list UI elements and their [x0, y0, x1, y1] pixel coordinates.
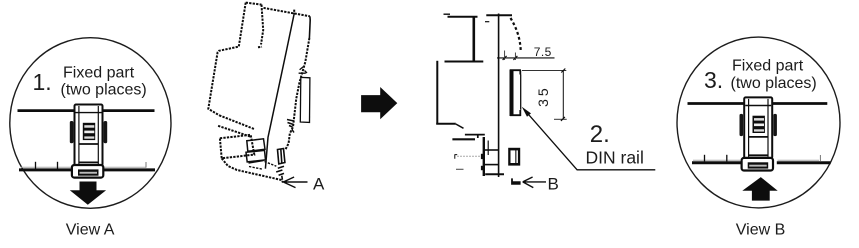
DIN rail leader line	[528, 113, 656, 170]
right bottom rail thin upper line	[693, 159, 819, 161]
3D right edge dashed	[286, 38, 310, 149]
left bottom rail line	[19, 168, 155, 171]
down arrow (View A)	[70, 182, 106, 205]
3D bottom edge	[222, 158, 283, 182]
3D diagonal edge 1	[219, 115, 255, 129]
3D bottom tip cluster	[276, 166, 284, 180]
side bottom shelf	[436, 123, 456, 125]
arrow to B	[523, 177, 546, 188]
svg-text:View A: View A	[66, 222, 115, 239]
svg-text:7.5: 7.5	[534, 45, 552, 59]
svg-text:B: B	[548, 175, 559, 194]
dimension 7.5 line	[497, 57, 555, 59]
right clip assembly	[740, 97, 777, 170]
dimension 35 tick bottom	[561, 117, 565, 121]
left top rail line	[18, 109, 155, 112]
3D clip stack third line	[249, 161, 264, 164]
svg-text:(two places): (two places)	[731, 75, 817, 92]
side lower ledge	[465, 135, 485, 138]
side left edge	[436, 61, 438, 124]
right bottom rail line	[692, 161, 831, 164]
side front vertical	[483, 137, 485, 176]
dimension 7.5 tick 1	[503, 56, 507, 60]
clip inner wall right	[97, 106, 99, 164]
DIN rail leader arrowhead	[522, 107, 531, 117]
right rail tick 2	[726, 155, 728, 162]
side view black hook bottom	[511, 178, 520, 184]
svg-text:1.: 1.	[33, 69, 52, 95]
3D left profile	[208, 3, 245, 116]
side tower right step	[472, 16, 475, 62]
svg-text:3: 3	[535, 99, 551, 107]
circle outline left	[10, 38, 171, 209]
side shelf	[445, 61, 484, 63]
side terminal dash	[452, 138, 475, 140]
3D tower right edge	[258, 5, 263, 48]
3D right edge upper solid	[308, 16, 311, 38]
svg-text:View B: View B	[736, 222, 786, 239]
side bottom line	[485, 173, 504, 175]
side rung 2	[484, 164, 499, 166]
3D terminal block quad	[220, 135, 254, 159]
left rail tick 3	[145, 162, 147, 168]
left rail tick 2	[57, 162, 59, 169]
left rail tick 1	[35, 162, 37, 169]
side left nub 2	[481, 166, 484, 170]
svg-text:DIN rail: DIN rail	[586, 147, 644, 167]
circle outline right	[677, 37, 840, 208]
dimension 35 extension top	[522, 70, 566, 72]
3D clip stack lower quad	[246, 150, 266, 162]
svg-text:(two places): (two places)	[61, 82, 147, 99]
3D inner front-right edge solid	[265, 13, 294, 169]
3D clip stack bottom dashes	[249, 162, 276, 170]
3D side rail rectangle	[299, 67, 310, 123]
panel top cap	[486, 14, 512, 16]
clip body outer	[75, 105, 103, 166]
svg-text:5: 5	[535, 88, 551, 96]
left clip assembly	[70, 105, 107, 178]
DIN rail front edge	[520, 75, 522, 110]
left bottom rail thin upper line	[21, 166, 146, 168]
side rung 1	[484, 149, 499, 151]
side small dash	[456, 168, 464, 170]
arrow to A	[283, 177, 307, 188]
DIN rail bottom hook	[510, 110, 521, 116]
side left nub 1	[481, 154, 484, 159]
side tower top-left serif	[444, 13, 451, 15]
dimension 35 tick top	[561, 69, 565, 73]
3D tower top edge	[246, 3, 262, 5]
up arrow (View B)	[742, 177, 777, 201]
small dash under cap	[485, 21, 489, 23]
chamfer dashed line	[511, 18, 521, 52]
clip right ear	[104, 121, 108, 143]
DIN rail web (side view)	[510, 70, 514, 117]
svg-text:A: A	[313, 175, 325, 194]
dimension 35 extension bottom	[554, 118, 567, 120]
side second vertical	[487, 141, 489, 156]
3D diagonal edge 2	[218, 126, 251, 137]
side top edge	[448, 16, 478, 18]
3D hook cluster marks	[287, 120, 294, 133]
svg-text:3.: 3.	[704, 67, 723, 93]
dimension 35 line	[562, 71, 564, 120]
DIN rail top hook	[510, 70, 521, 74]
dimension 7.5 extension marks	[505, 51, 516, 61]
svg-text:Fixed part: Fixed part	[63, 64, 135, 81]
right rail tick 1	[704, 155, 706, 162]
side small diagonal	[456, 124, 464, 128]
clip foot slot	[78, 169, 99, 175]
clip foot	[72, 165, 103, 178]
panel vertical line	[498, 14, 500, 178]
3D clip stack upper quad	[247, 139, 265, 152]
3D main top edge	[264, 8, 310, 16]
clip left ear	[70, 121, 74, 143]
clip window	[79, 144, 98, 162]
side corner mark	[455, 155, 458, 159]
clip cap line	[76, 112, 102, 114]
svg-text:Fixed part: Fixed part	[732, 58, 804, 75]
svg-text:2.: 2.	[590, 121, 610, 148]
big right arrow	[361, 87, 397, 119]
right top rail line	[688, 102, 828, 105]
clip ribbed slider	[83, 123, 95, 140]
clip inner wall left	[78, 106, 80, 164]
side dotted hidden line	[458, 155, 482, 157]
3D bottom hook detail	[278, 149, 285, 164]
side view clip button square	[508, 148, 520, 166]
right rail tick 3	[819, 155, 821, 161]
dimension 7.5 tick 2	[513, 56, 517, 60]
